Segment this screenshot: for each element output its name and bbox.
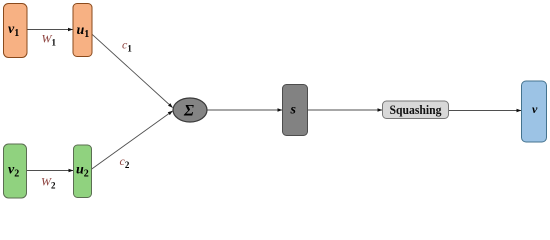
- wire: arrow s to squashing: [308, 109, 383, 111]
- svg-text:c1: c1: [122, 38, 132, 54]
- wire: diagonal arrow u1 to sigma: [91, 33, 173, 107]
- wire: arrow squashing to v: [449, 110, 522, 112]
- node s box: [283, 85, 308, 136]
- node u1 box: [73, 4, 92, 57]
- node v output box: [522, 81, 547, 142]
- svg-text:c2: c2: [120, 154, 130, 170]
- wire: arrow v2 to u2: [27, 170, 73, 172]
- wire: arrow v1 to u1: [28, 29, 73, 31]
- wire: diagonal arrow u2 to sigma: [90, 111, 173, 170]
- node v1 box: [4, 4, 28, 58]
- svg-text:v: v: [532, 102, 538, 116]
- svg-text:s: s: [290, 103, 297, 118]
- svg-text:W1: W1: [42, 32, 57, 48]
- wire: arrow sigma to s: [208, 109, 283, 111]
- node squashing box: [383, 101, 449, 119]
- svg-text:W2: W2: [41, 175, 56, 191]
- node v2 box: [4, 144, 27, 198]
- node sigma ellipse: [173, 98, 207, 122]
- node u2 box: [74, 145, 92, 198]
- svg-text:Σ: Σ: [183, 102, 194, 119]
- svg-text:Squashing: Squashing: [390, 102, 442, 117]
